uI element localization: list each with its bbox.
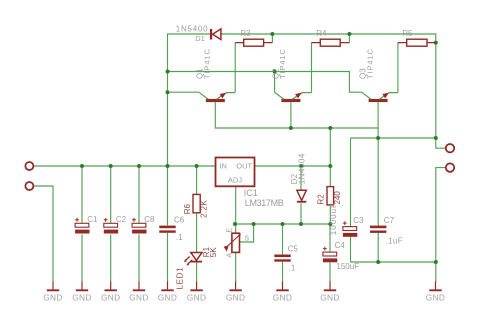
output pin 2 (VOUT-) xyxy=(446,163,454,171)
svg-text:A: A xyxy=(227,253,234,258)
svg-text:C8: C8 xyxy=(144,215,155,224)
wire trimmer bottom to GND xyxy=(235,253,237,282)
wire R3 right riser xyxy=(271,34,273,43)
wire C4 top from ADJ bus xyxy=(329,224,331,252)
svg-text:C2: C2 xyxy=(116,215,127,224)
diode D2 xyxy=(297,190,306,202)
svg-text:R2: R2 xyxy=(317,194,326,205)
wire C7 top xyxy=(377,138,379,226)
wire node B horizontal to output corner xyxy=(351,137,436,139)
wire C3 bottom to bus xyxy=(350,235,352,262)
junction input rail / left rail xyxy=(166,164,170,168)
svg-text:GND: GND xyxy=(101,292,121,302)
svg-text:GND: GND xyxy=(226,292,246,302)
transistor Q2 (TIP41C) xyxy=(274,92,311,102)
transistor Q1 (TIP41C) xyxy=(199,92,235,102)
wire output pin2 to bottom bus xyxy=(436,168,446,262)
junction R5 right / output vertical xyxy=(434,41,438,45)
wire R3 left riser / Q1 emitter xyxy=(234,43,236,93)
wire C2 top xyxy=(110,166,112,223)
diode D1 xyxy=(210,29,221,40)
junction input rail / R6 xyxy=(195,164,199,168)
svg-text:R4: R4 xyxy=(316,29,327,38)
capacitor C3 xyxy=(343,221,357,237)
svg-text:R3: R3 xyxy=(240,29,251,38)
wire C3 top drop xyxy=(350,138,352,227)
capacitor C8 xyxy=(132,218,146,234)
junction ADJ bus / C5 xyxy=(281,222,285,226)
junction left rail / collector rail xyxy=(166,70,170,74)
junction bottom bus / output pin2 xyxy=(434,260,438,264)
svg-text:1N4004: 1N4004 xyxy=(297,153,306,184)
resistor R4 leads xyxy=(312,42,350,44)
junction input rail / C1 xyxy=(80,164,84,168)
svg-text:C4: C4 xyxy=(335,241,346,250)
wire C1 top xyxy=(81,166,83,223)
capacitor C4 xyxy=(323,247,337,263)
wire D2 anode from OUT rail xyxy=(300,166,302,190)
svg-text:C6: C6 xyxy=(174,216,185,225)
svg-text:150uF: 150uF xyxy=(336,262,359,271)
wire ADJ bus xyxy=(236,223,330,225)
input pin 2 (VIN-) xyxy=(25,182,33,190)
ground (C1) xyxy=(72,282,92,303)
svg-text:.1: .1 xyxy=(289,263,296,272)
svg-text:TIP41C: TIP41C xyxy=(203,48,212,79)
resistor R5 leads xyxy=(398,42,436,44)
svg-text:C3: C3 xyxy=(353,216,364,225)
junction ADJ bus / trimmer xyxy=(233,222,237,226)
wire R5 left riser / Q3 emitter xyxy=(397,43,399,93)
op-amp/regulator IC1 LM317MB box xyxy=(216,158,255,187)
capacitor C2 xyxy=(104,218,118,234)
wire R2 top xyxy=(329,166,331,187)
wire input pin2 to GND xyxy=(34,186,53,282)
wire D2 cathode to ADJ bus xyxy=(300,203,302,224)
wire left rail top (to D1 anode side) xyxy=(168,34,210,225)
svg-text:GND: GND xyxy=(273,292,293,302)
svg-text:R6: R6 xyxy=(183,204,192,215)
svg-text:.1: .1 xyxy=(176,233,183,242)
wire R6 to LED1 xyxy=(196,213,198,252)
capacitor C5 xyxy=(274,255,290,262)
ground (trimmer R1) xyxy=(226,282,246,303)
junction ADJ bus / wiper xyxy=(252,222,256,226)
wire collector rail y71 xyxy=(168,72,362,93)
junction node B / C7 xyxy=(376,136,380,140)
wire R6 top xyxy=(196,166,198,194)
resistor R4 xyxy=(320,39,340,46)
svg-text:S: S xyxy=(244,236,249,243)
svg-text:TIP41C: TIP41C xyxy=(278,48,287,79)
ground (C4) xyxy=(320,282,340,303)
LED LED1 xyxy=(184,253,202,266)
svg-text:ADJ: ADJ xyxy=(228,175,242,184)
wire bottom bus xyxy=(351,262,436,282)
trimmer R1 wiper arrow xyxy=(224,234,241,252)
svg-text:TIP41C: TIP41C xyxy=(365,48,374,79)
svg-text:OUT: OUT xyxy=(236,162,252,171)
junction OUT rail / R2 xyxy=(328,164,332,168)
svg-text:C1: C1 xyxy=(87,215,98,224)
capacitor C1 xyxy=(75,218,89,234)
ground (C2) xyxy=(101,282,121,303)
svg-text:C7: C7 xyxy=(384,216,395,225)
junction top rail / R4 xyxy=(347,32,351,36)
wire Q2 collector riser xyxy=(274,72,276,93)
svg-text:GND: GND xyxy=(129,292,149,302)
svg-text:1N5400: 1N5400 xyxy=(176,24,209,33)
ground (output) xyxy=(426,282,446,303)
svg-text:.1uF: .1uF xyxy=(385,237,403,246)
trimmer R1 body xyxy=(232,233,240,252)
wire Q3 base down through bus to node B xyxy=(377,102,379,138)
resistor R5 xyxy=(407,39,427,46)
resistor R2 xyxy=(327,187,334,205)
wire input rail VIN (pin to IC IN) xyxy=(34,165,216,167)
wire R4 right riser xyxy=(348,34,350,43)
wire C5 bottom to GND xyxy=(282,262,284,282)
wire C1 bottom xyxy=(81,234,83,282)
svg-text:GND: GND xyxy=(72,292,92,302)
wire C7 bottom xyxy=(377,233,379,262)
wire C2 bottom xyxy=(110,234,112,282)
wire Q1 collector to left rail xyxy=(168,91,199,93)
junction bottom bus / C7 xyxy=(376,260,380,264)
svg-text:R5: R5 xyxy=(402,29,413,38)
junction ADJ bus / R2 C4 xyxy=(328,222,332,226)
wire trimmer top xyxy=(235,224,237,233)
wire C5 top xyxy=(282,224,284,254)
wire Q1 base down to base bus xyxy=(215,102,378,128)
capacitor C7 xyxy=(370,226,386,233)
ground (C5) xyxy=(273,282,293,303)
junction base bus / OUT riser xyxy=(328,126,332,130)
wire R2 bottom to ADJ bus xyxy=(329,205,331,224)
svg-text:LM317MB: LM317MB xyxy=(245,198,284,208)
wire output pin1 stub xyxy=(436,138,446,148)
output pin 1 (VOUT+) xyxy=(446,144,454,152)
wire R4 left riser / Q2 emitter xyxy=(311,43,313,93)
svg-text:C5: C5 xyxy=(288,245,299,254)
svg-text:GND: GND xyxy=(426,292,446,302)
junction OUT rail / D2 xyxy=(299,164,303,168)
junction left rail / Q1 collector xyxy=(166,90,170,94)
resistor R3 leads xyxy=(235,42,272,44)
input pin 1 (VIN+) xyxy=(25,162,33,170)
wire trimmer wiper to ADJ bus xyxy=(240,224,254,242)
junction input rail / C8 xyxy=(137,164,141,168)
svg-text:E: E xyxy=(227,228,234,233)
ground (C6 / left rail) xyxy=(158,282,178,303)
wire left rail below C6 to GND xyxy=(167,233,169,282)
svg-text:LED1: LED1 xyxy=(176,267,185,290)
junction top rail / R3 xyxy=(270,32,274,36)
resistor R3 xyxy=(244,39,264,46)
junction input rail / C2 xyxy=(109,164,113,168)
svg-text:GND: GND xyxy=(320,292,340,302)
svg-text:5K: 5K xyxy=(209,247,218,257)
svg-text:2.2K: 2.2K xyxy=(200,200,209,218)
wire output node riser to OUT rail xyxy=(329,128,331,166)
svg-text:IN: IN xyxy=(219,162,227,171)
wire C4 bottom to GND xyxy=(329,263,331,283)
capacitor C6 xyxy=(159,226,175,233)
junction node B / output corner xyxy=(434,136,438,140)
wire LED1 to GND xyxy=(196,263,198,283)
ground (input pin2) xyxy=(43,282,63,303)
svg-text:IC1: IC1 xyxy=(244,188,258,198)
svg-text:GND: GND xyxy=(187,292,207,302)
wire C8 bottom xyxy=(138,234,140,282)
svg-text:GND: GND xyxy=(158,292,178,302)
wire IC OUT rail xyxy=(255,165,331,167)
wire Q2 base down xyxy=(290,102,292,128)
svg-text:1000uF: 1000uF xyxy=(329,202,338,235)
transistor Q3 (TIP41C) xyxy=(362,92,398,102)
junction ADJ bus / D2 xyxy=(299,222,303,226)
wire C8 top xyxy=(138,166,140,223)
resistor R6 xyxy=(193,194,200,212)
ground (C8) xyxy=(129,282,149,303)
wire IC ADJ pin down xyxy=(235,186,237,224)
svg-text:GND: GND xyxy=(43,292,63,302)
wire top rail from D1 to right corner down to output node xyxy=(221,34,436,138)
ground (LED1) xyxy=(187,282,207,303)
junction base bus / Q2 xyxy=(289,126,293,130)
junction collector rail / Q2 xyxy=(273,70,277,74)
svg-text:D1: D1 xyxy=(195,34,205,43)
